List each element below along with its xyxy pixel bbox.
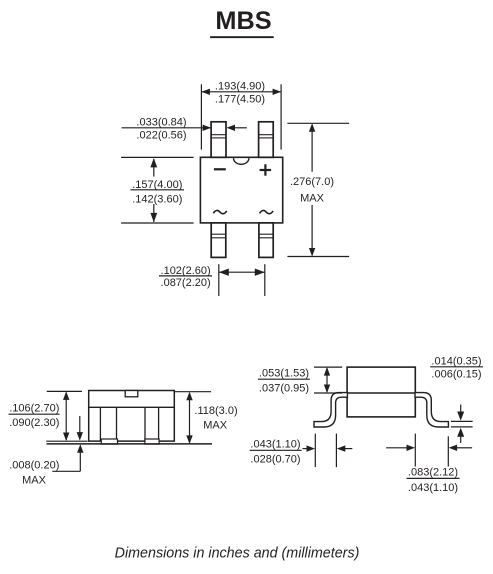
bottom lead 2 (bottom-right)	[259, 223, 273, 258]
dimension .083(2.12)/.043(1.10) lead span	[386, 434, 472, 494]
end view body	[347, 367, 415, 417]
dimension .118(3.0) MAX overall height side	[175, 392, 238, 444]
svg-text:.118(3.0): .118(3.0)	[194, 405, 237, 417]
plus polarity mark	[260, 164, 272, 175]
dimension .276(7.0) MAX overall height	[287, 123, 349, 256]
dimension .102(2.60)/.087(2.20) lead pitch	[159, 264, 265, 296]
svg-text:.037(0.95): .037(0.95)	[259, 382, 309, 394]
side view foot right	[145, 439, 159, 444]
svg-text:.102(2.60): .102(2.60)	[161, 265, 211, 277]
svg-text:.177(4.50): .177(4.50)	[215, 93, 265, 105]
svg-text:.053(1.53): .053(1.53)	[259, 367, 309, 379]
svg-text:.028(0.70): .028(0.70)	[250, 454, 300, 466]
svg-text:MAX: MAX	[22, 474, 47, 486]
svg-text:.193(4.90): .193(4.90)	[215, 80, 265, 92]
svg-text:.142(3.60): .142(3.60)	[132, 194, 182, 206]
dimension .014(0.35)/.006(0.15) lead thickness	[430, 355, 483, 443]
end view gull-wing lead left	[314, 393, 347, 427]
dimension .053(1.53)/.037(0.95) body top to lead	[258, 367, 342, 394]
side view foot left	[101, 439, 117, 444]
top lead 2 (top-right)	[259, 122, 274, 158]
caption	[115, 546, 360, 562]
top lead 1 (top-left)	[211, 122, 226, 158]
side view lead lines	[100, 407, 158, 441]
dimension .033(0.84)/.022(0.56) lead width	[122, 116, 247, 141]
top view body	[200, 157, 282, 223]
svg-text:.106(2.70): .106(2.70)	[9, 402, 59, 414]
svg-text:.022(0.56): .022(0.56)	[136, 129, 186, 141]
svg-text:.276(7.0): .276(7.0)	[290, 176, 334, 188]
svg-text:.157(4.00): .157(4.00)	[132, 179, 182, 191]
svg-text:.008(0.20): .008(0.20)	[9, 459, 59, 471]
AC tilde mark left	[213, 210, 227, 213]
svg-text:.087(2.20): .087(2.20)	[161, 277, 211, 289]
seating plane line	[47, 443, 213, 445]
dimension .106(2.70)/.090(2.30) body height side	[9, 391, 88, 441]
svg-text:.006(0.15): .006(0.15)	[431, 369, 481, 381]
dimension .157(4.00)/.142(3.60) body height	[121, 157, 194, 223]
side view body	[89, 391, 175, 442]
dimension .008(0.20) MAX standoff	[9, 416, 83, 486]
svg-text:MAX: MAX	[300, 193, 325, 205]
end view gull-wing lead right	[415, 393, 448, 427]
dimension .043(1.10)/.028(0.70) foot length	[250, 434, 353, 468]
svg-text:MBS: MBS	[215, 7, 271, 35]
svg-text:.043(1.10): .043(1.10)	[250, 438, 300, 450]
AC tilde mark right	[260, 210, 274, 213]
svg-text:.043(1.10): .043(1.10)	[408, 482, 458, 494]
svg-text:MAX: MAX	[203, 420, 228, 432]
svg-text:.033(0.84): .033(0.84)	[136, 116, 186, 128]
svg-text:Dimensions in inches and (mill: Dimensions in inches and (millimeters)	[115, 546, 360, 562]
svg-text:.090(2.30): .090(2.30)	[9, 417, 59, 429]
svg-text:.083(2.12): .083(2.12)	[408, 466, 458, 478]
minus polarity mark	[214, 168, 226, 170]
svg-text:.014(0.35): .014(0.35)	[431, 355, 481, 367]
bottom lead 1 (bottom-left)	[211, 223, 226, 258]
title MBS	[210, 7, 274, 38]
dimension .193(4.90)/.177(4.50) body width	[201, 80, 281, 149]
